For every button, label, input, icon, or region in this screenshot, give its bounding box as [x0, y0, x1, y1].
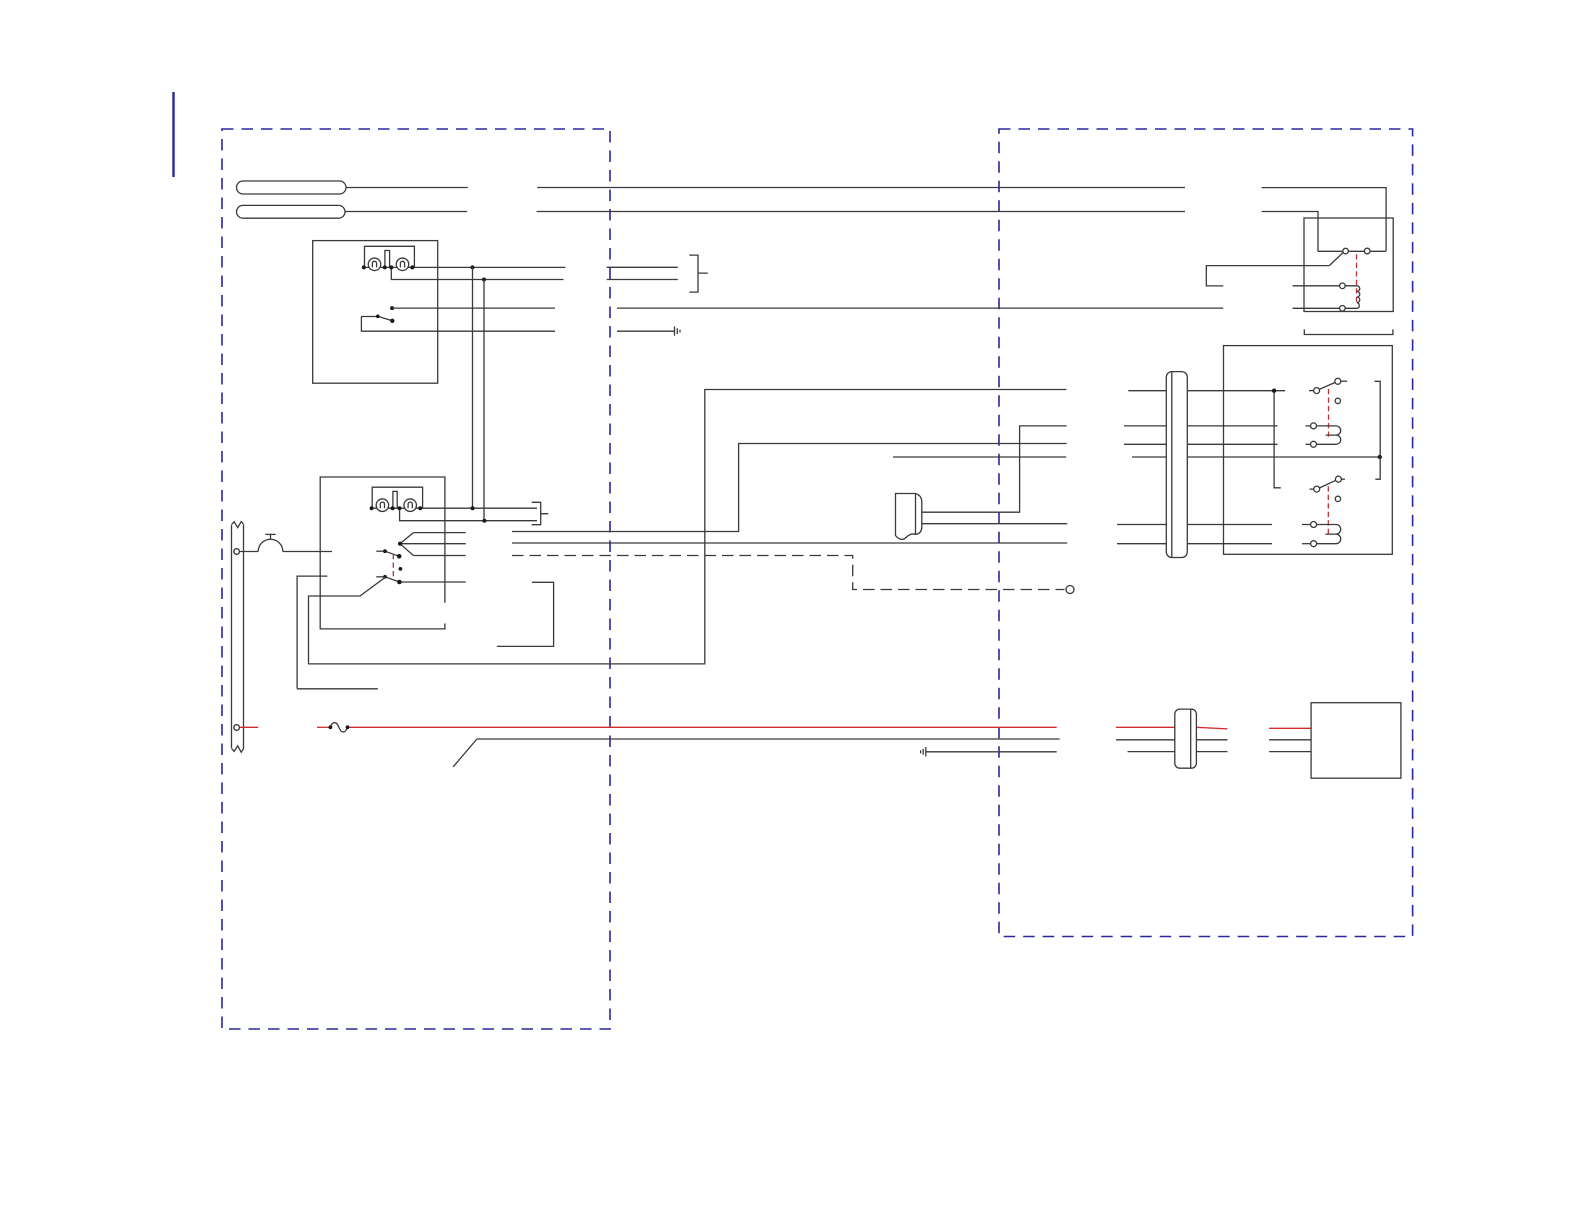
relay 1 lower bracket [1304, 329, 1393, 334]
wire: relay harness y390 [1128, 390, 1285, 392]
wire: relay 1 switch feed [1206, 266, 1329, 286]
wire: vertical link to ignition lamp bus A [472, 267, 474, 508]
wire: valve to ignition box [283, 551, 332, 553]
relay 2 switch [1309, 378, 1347, 403]
wire: feed line 1 from F1 [346, 188, 1386, 252]
wire: relay harness y444 [1124, 443, 1278, 445]
wire: lamp return drop (lower) [400, 508, 537, 521]
wire: scroll upper lead [922, 426, 1067, 512]
fusible link F2 (lower pill) [237, 205, 346, 218]
blue margin reference mark [172, 92, 174, 177]
ground G1 [675, 327, 681, 336]
terminal circle on dashed wire [1066, 586, 1074, 594]
relay 3 switch [1310, 476, 1345, 501]
bulkhead junction strip [232, 522, 244, 753]
wire: relay harness y525 [1117, 524, 1272, 526]
junction dots on lower lamp bus [370, 506, 487, 523]
connector receptacle bracket (below ignition box) [497, 582, 554, 646]
wire: black harness line 2 (grounded) [926, 751, 1311, 753]
dashed boundary: left compartment [222, 129, 610, 1029]
wire: S1 feed to ground [361, 317, 674, 332]
junction dots on upper lamp bus [362, 265, 486, 281]
wire: lamp bus (lower) [372, 507, 537, 509]
indicator lamp L1 [368, 258, 381, 271]
relay 1 coil leads [1293, 286, 1340, 309]
relay 1 box (top right) [1304, 218, 1393, 312]
wire: lamp return drop (upper) [391, 267, 563, 279]
wire: lamp bus (upper) [364, 266, 566, 268]
wire: S2 stub feed [297, 576, 378, 689]
relay 2 red link [1328, 389, 1330, 440]
wire: S2 arm feed [309, 390, 1067, 664]
connector capsule C4 (lower) [1175, 709, 1197, 768]
relay output bracket [1375, 381, 1381, 479]
valve / horn symbol [258, 534, 283, 551]
connector plug C2 (bracket) [532, 502, 549, 524]
lamp module frame (upper) [365, 246, 415, 267]
relay 1 red link [1356, 254, 1358, 304]
indicator lamp L4 [404, 499, 417, 512]
relay box (right, double relay) [1224, 346, 1393, 555]
relay 3 red link [1327, 486, 1329, 537]
terminal circle T1 [234, 549, 240, 555]
fusible link F1 (top pill) [237, 181, 347, 194]
wire: floating lead to relay bracket [893, 456, 1066, 458]
box: ignition switch assembly (lower left) [320, 477, 445, 629]
wire: from T1 to valve [240, 551, 258, 553]
indicator lamp L3 [376, 499, 389, 512]
ignition switch S2 lower pole [376, 577, 465, 582]
indicator lamp L2 [396, 258, 409, 271]
wire: relay harness y543 [1117, 543, 1272, 545]
wire: branch chevron of ignition switch [400, 533, 466, 556]
wire: black harness line 1 [453, 739, 1311, 767]
wire: vertical link to ignition lamp bus B [483, 280, 485, 521]
wire: S1 output [392, 307, 1223, 309]
connector plug C1 (bracket) [689, 255, 707, 292]
relay 3 coil [1302, 522, 1341, 547]
red link of ignition switch [392, 554, 394, 577]
box: gauge assembly (upper left) [313, 241, 438, 384]
relay 1 frame shelf [1318, 250, 1386, 252]
wire: connector leads (upper pair) [607, 267, 678, 279]
wire: drop from y390 with hook [1274, 391, 1281, 488]
lamp module frame (lower) [372, 487, 422, 508]
switch S1 (upper box) [361, 316, 392, 321]
wire: scroll lower lead [922, 523, 1067, 525]
wire: red battery feed [240, 727, 1311, 729]
relay 1 coil [1340, 283, 1360, 311]
ignition switch S2 upper pole [376, 551, 399, 556]
paper/scroll harness symbol [896, 494, 922, 540]
dashed boundary: right compartment [999, 129, 1413, 937]
ground G2 [921, 747, 926, 756]
wire: relay harness y425 [1124, 425, 1278, 427]
inline connector squiggle on red feed [330, 723, 347, 732]
terminal circle T2 [234, 725, 240, 731]
wire: ignition outputs (resume segments) [512, 444, 1067, 544]
relay 1 switch [1329, 248, 1370, 265]
connector capsule C3 (main harness) [1166, 372, 1187, 558]
dashed option wire [512, 556, 1065, 590]
control module box [1311, 703, 1401, 779]
relay 2 coil [1306, 423, 1341, 447]
wire: feed line 2 from F2 [345, 212, 1318, 252]
